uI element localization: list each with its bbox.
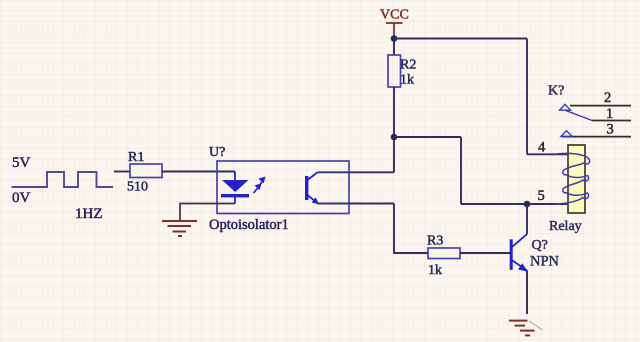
svg-text:3: 3: [607, 122, 614, 138]
wire input to R1: [114, 171, 130, 173]
wire Q emitter to ground: [526, 271, 528, 314]
LED inside optoisolator: [221, 172, 249, 204]
wire VCC junction to R2 top: [393, 39, 395, 56]
junction node at VCC: [391, 35, 398, 42]
wire opto collector to R2 net: [349, 171, 394, 173]
light emission arrows: [254, 177, 266, 194]
wire junction to Q collector: [526, 204, 528, 234]
svg-text:Relay: Relay: [549, 219, 582, 234]
wire R1 to optoisolator LED anode: [162, 171, 235, 173]
svg-text:NPN: NPN: [530, 254, 560, 270]
wire to pin5 junction: [461, 203, 527, 205]
resistor R3: [428, 248, 460, 259]
junction node below R2: [391, 134, 398, 141]
svg-text:5V: 5V: [12, 155, 31, 171]
svg-text:5: 5: [538, 188, 545, 204]
square wave input signal: [12, 172, 114, 187]
svg-text:1k: 1k: [428, 263, 442, 278]
svg-text:U?: U?: [209, 145, 225, 160]
svg-text:K?: K?: [548, 84, 564, 99]
svg-text:R1: R1: [128, 150, 144, 165]
svg-text:2: 2: [604, 90, 611, 106]
resistor R2: [388, 55, 401, 87]
wire R3 to Q base: [460, 252, 510, 254]
transistor Q? NPN: [510, 234, 528, 272]
svg-text:Q?: Q?: [532, 238, 548, 253]
svg-text:R2: R2: [400, 58, 416, 73]
relay contact pin 2: [560, 90, 632, 110]
relay contact pin 3: [561, 122, 631, 138]
svg-text:VCC: VCC: [380, 8, 409, 23]
relay coil: [556, 145, 590, 213]
svg-text:4: 4: [538, 140, 546, 156]
wire vertical to pin5 net: [460, 137, 462, 204]
wire LED cathode to ground: [180, 204, 235, 221]
phototransistor inside optoisolator: [305, 172, 349, 204]
svg-text:Optoisolator1: Optoisolator1: [209, 217, 289, 233]
wire relay pin 4: [527, 153, 568, 155]
wire R2 bottom to opto collector: [393, 87, 395, 172]
wire VCC junction to relay pin 4 drop: [394, 38, 527, 40]
wire opto emitter: [349, 203, 394, 205]
svg-text:1HZ: 1HZ: [75, 206, 103, 222]
optoisolator U? box: [217, 161, 349, 214]
svg-text:1k: 1k: [400, 73, 414, 88]
wire junction right: [394, 136, 461, 138]
svg-text:1: 1: [606, 106, 613, 122]
svg-text:R3: R3: [427, 234, 443, 249]
wire relay pin 5: [527, 203, 568, 205]
wire emitter down to R3: [394, 204, 428, 254]
svg-text:0V: 0V: [12, 190, 31, 206]
resistor R1: [130, 164, 162, 178]
ground (right): [509, 321, 543, 336]
ground (left): [162, 221, 197, 236]
power port VCC: [380, 8, 409, 39]
wire down to relay pin 4: [526, 39, 528, 155]
junction node pin5/collector: [524, 201, 531, 208]
relay contact pin 1 (common/armature): [565, 106, 631, 122]
svg-text:510: 510: [127, 180, 148, 195]
